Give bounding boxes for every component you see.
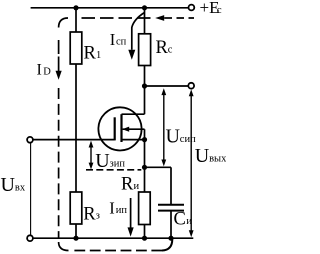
wire source to source node — [144, 140, 146, 168]
current direction arrowhead on top dashed line — [155, 15, 164, 21]
wire drain node to transistor drain — [144, 86, 146, 114]
svg-text:сп: сп — [116, 37, 127, 48]
svg-text:з: з — [96, 211, 100, 222]
wire source node to Ci — [145, 166, 172, 168]
wire drain node to output terminal — [145, 85, 189, 87]
terminal +Ec — [189, 5, 195, 11]
current Iip arrow — [130, 198, 132, 228]
voltage Uzip arrow — [90, 144, 92, 167]
svg-text:I: I — [37, 62, 42, 79]
voltage Uvyh arrow — [190, 92, 192, 235]
svg-text:R: R — [83, 204, 96, 224]
svg-text:I: I — [109, 198, 115, 217]
node junction source — [142, 165, 147, 170]
dashed current loop bottom-right corner — [162, 239, 172, 251]
svg-text:вых: вых — [209, 154, 226, 165]
node junction top Rc — [142, 5, 147, 10]
terminal input bottom — [27, 235, 33, 241]
dashed current loop top-left corner — [59, 18, 68, 28]
wire R1 branch top — [75, 8, 77, 32]
dashed source-potential reference line — [86, 169, 141, 171]
svg-text:и: и — [134, 181, 140, 192]
dashed current loop top line — [82, 17, 152, 19]
node junction drain — [142, 83, 147, 88]
wire Rz to bottom rail — [75, 224, 77, 238]
wire Ci top lead — [170, 167, 172, 205]
svg-text:и: и — [186, 216, 192, 227]
node junction Ci bottom — [168, 236, 173, 241]
svg-text:U: U — [195, 145, 210, 167]
svg-text:сип: сип — [180, 134, 196, 145]
transistor VT body circle — [98, 107, 141, 150]
transistor source stub — [122, 139, 145, 141]
svg-text:U: U — [1, 174, 16, 196]
resistor Ri — [139, 192, 151, 225]
dashed current loop bottom line — [74, 250, 162, 252]
current ID arrow — [58, 57, 60, 72]
transistor substrate arrowhead — [122, 127, 129, 132]
node junction top R1 — [73, 5, 78, 10]
svg-text:вх: вх — [15, 182, 26, 193]
wire gate input — [33, 139, 115, 141]
resistor Rz — [70, 192, 82, 224]
voltage Usip arrow — [163, 91, 165, 164]
svg-text:R: R — [84, 44, 97, 64]
wire Ci bottom lead — [170, 211, 172, 239]
transistor channel bar — [120, 114, 122, 142]
wire R1 to gate node — [75, 64, 77, 192]
wire bottom rail — [33, 237, 193, 239]
node junction substrate-source — [142, 137, 147, 142]
current Isp arrow — [132, 13, 145, 50]
node junction Rz bottom — [73, 236, 78, 241]
capacitor Ci — [158, 205, 184, 211]
svg-text:C: C — [174, 210, 186, 230]
svg-text:ип: ип — [116, 205, 128, 216]
svg-text:1: 1 — [96, 50, 101, 61]
resistor R1 — [70, 32, 82, 64]
dashed current loop left line — [58, 40, 60, 54]
resistor Rc — [139, 34, 151, 66]
svg-text:U: U — [166, 125, 181, 147]
terminal input top — [27, 137, 33, 143]
transistor drain stub — [122, 113, 145, 115]
svg-text:R: R — [121, 175, 134, 195]
svg-text:зип: зип — [110, 158, 126, 169]
wire Ri to bottom rail — [144, 225, 146, 239]
svg-text:D: D — [43, 67, 51, 78]
wire source node to Ri — [144, 167, 146, 192]
wire top rail — [31, 7, 189, 9]
wire input terminals link — [30, 143, 32, 235]
svg-text:R: R — [156, 38, 169, 58]
svg-text:с: с — [217, 4, 222, 16]
transistor substrate lead — [123, 129, 145, 139]
svg-text:с: с — [168, 44, 173, 55]
wire Rc to drain node — [144, 66, 146, 87]
transistor gate bar — [114, 117, 116, 140]
svg-text:I: I — [110, 30, 116, 49]
svg-text:U: U — [95, 150, 110, 172]
dashed current loop bottom-left corner — [59, 242, 69, 251]
terminal output — [188, 83, 194, 89]
wire Rc branch top — [144, 8, 146, 34]
node junction Ri bottom — [142, 236, 147, 241]
